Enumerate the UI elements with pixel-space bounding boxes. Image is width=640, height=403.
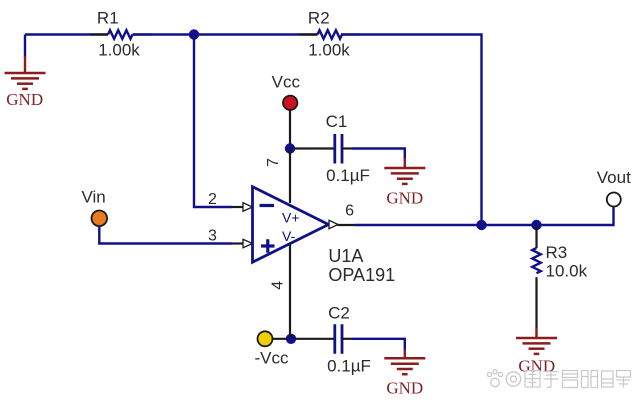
watermark glyph 1 [525, 371, 540, 388]
svg-text:GND: GND [386, 189, 423, 208]
wire pin3 black stub [232, 242, 244, 244]
wire top-left horizontal from GND1 corner to R1 [25, 35, 108, 58]
svg-text:1.00k: 1.00k [98, 41, 140, 60]
node Vin terminal [92, 211, 108, 227]
svg-text:C1: C1 [326, 112, 348, 131]
ground GND4 symbol [516, 338, 557, 354]
svg-text:GND: GND [6, 90, 43, 109]
op-amp plus sign [261, 239, 275, 253]
ground GND4 red stub [535, 328, 537, 338]
node junction J3 [285, 143, 295, 153]
watermark at-sign [506, 372, 520, 386]
svg-text:Vin: Vin [81, 188, 105, 207]
capacitor C1 plates [335, 134, 342, 164]
svg-text:Vout: Vout [597, 168, 631, 187]
wire feedback from J1 down to pin2 [194, 35, 232, 208]
watermark glyph 4 [582, 371, 598, 388]
watermark paw icon [487, 370, 502, 387]
ground GND1 symbol [5, 73, 46, 89]
svg-text:OPA191: OPA191 [328, 265, 395, 285]
svg-text:Vcc: Vcc [272, 73, 301, 92]
wire output run to Vout [355, 207, 614, 226]
resistor R2 lead right [341, 33, 360, 35]
op-amp minus sign [260, 204, 275, 207]
svg-text:C2: C2 [328, 304, 350, 323]
pin 2 arrowhead [243, 203, 253, 211]
resistor R1 zigzag [108, 30, 133, 39]
ground GND1 red stub [24, 56, 26, 73]
svg-text:1.00k: 1.00k [308, 41, 350, 60]
svg-text:6: 6 [345, 203, 354, 220]
resistor R1 lead left [90, 33, 108, 35]
watermark glyph 3 [563, 371, 578, 388]
node junction J4 [531, 220, 541, 230]
wire junction to C1 left lead [295, 147, 335, 149]
wire output stub [338, 224, 356, 226]
svg-text:0.1µF: 0.1µF [327, 357, 371, 376]
svg-text:GND: GND [518, 357, 555, 376]
wire pin4 stub [289, 244, 291, 339]
watermark glyph 2 [544, 372, 559, 388]
svg-text:R2: R2 [308, 9, 330, 28]
svg-text:-Vcc: -Vcc [255, 349, 290, 368]
svg-text:GND: GND [386, 379, 423, 398]
wire C1 to GND2 corner [352, 149, 405, 160]
node junction J1 [189, 29, 199, 39]
wire C2 to GND3 corner [352, 339, 405, 350]
wire -Vcc to junction [272, 338, 291, 340]
watermark glyph 5 [602, 371, 614, 387]
resistor R1 lead right [133, 33, 153, 35]
svg-text:4: 4 [270, 281, 287, 290]
wire R2 right to corner and down to output node [341, 35, 482, 226]
resistor R3 zigzag [532, 248, 541, 273]
svg-text:V-: V- [282, 228, 296, 244]
ground GND2 symbol [384, 168, 425, 184]
wire junction to C2 left lead [296, 338, 335, 340]
node junction J2 [476, 220, 486, 230]
node Vcc terminal [283, 96, 297, 110]
svg-text:U1A: U1A [328, 246, 363, 266]
ground GND3 red stub [404, 349, 406, 358]
resistor R2 lead left [299, 33, 318, 35]
pin 6 output arrowhead [329, 220, 338, 228]
wire R3 down to GND4 [535, 277, 537, 329]
wire C1 right lead to GND2 [342, 147, 352, 149]
wire pin2 black stub [232, 206, 244, 208]
node junction J5 [286, 334, 296, 344]
ground GND2 red stub [404, 158, 406, 168]
node -Vcc terminal [258, 331, 273, 346]
node Vout terminal [607, 193, 621, 207]
ground GND3 symbol [384, 358, 425, 374]
svg-text:V+: V+ [282, 210, 300, 226]
svg-text:3: 3 [208, 228, 217, 245]
svg-text:10.0k: 10.0k [546, 262, 588, 281]
wire Vin to pin3 [99, 226, 232, 244]
capacitor C2 plates [335, 324, 342, 354]
resistor R2 zigzag [318, 30, 343, 39]
wire C2 right lead [342, 338, 352, 340]
svg-text:R1: R1 [97, 9, 119, 28]
wire pin7 stub [289, 149, 291, 204]
svg-text:7: 7 [265, 158, 282, 167]
svg-text:2: 2 [208, 191, 217, 208]
svg-text:R3: R3 [546, 243, 568, 262]
wire R1 to R2 [133, 33, 318, 35]
wire junction J4 down to R3 [535, 225, 537, 248]
wire Vcc down to junction [289, 110, 291, 149]
watermark glyph 6 [617, 371, 631, 388]
pin 3 arrowhead [243, 239, 253, 247]
op-amp U1 triangle [253, 187, 329, 263]
svg-text:0.1µF: 0.1µF [326, 166, 370, 185]
